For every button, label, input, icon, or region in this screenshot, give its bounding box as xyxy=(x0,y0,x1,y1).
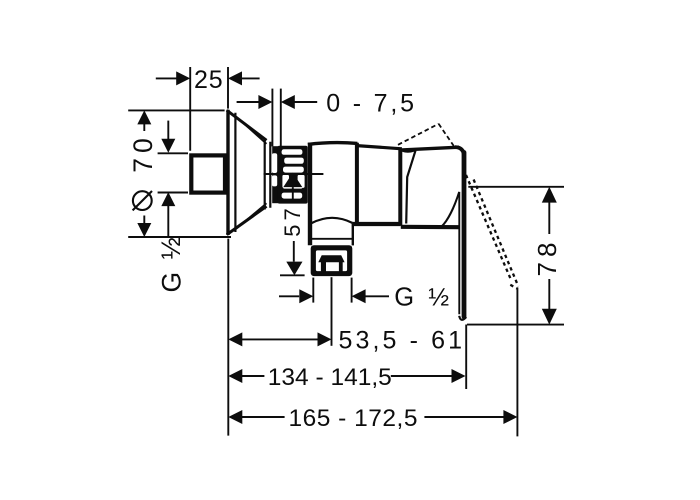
outlet neck xyxy=(311,223,353,245)
wall nipple G1/2 xyxy=(191,155,225,192)
dimension 57 (axis to outlet) xyxy=(283,173,302,188)
svg-text:0 - 7,5: 0 - 7,5 xyxy=(326,90,416,118)
svg-text:G: G xyxy=(394,284,414,312)
escutcheon cone xyxy=(227,110,270,235)
dimension 53,5 - 61 (wall to outlet axis) xyxy=(242,338,318,340)
svg-text:½: ½ xyxy=(428,284,449,312)
handle raised position dashed xyxy=(398,124,454,146)
cap / handle base xyxy=(402,147,459,223)
wall extension line xyxy=(227,239,229,436)
svg-text:53,5 - 61: 53,5 - 61 xyxy=(339,326,466,354)
hose nut G1/2 outlet xyxy=(311,245,353,276)
dimension 78 (handle drop height) xyxy=(467,187,564,325)
svg-text:165 - 172,5: 165 - 172,5 xyxy=(289,405,418,432)
handle face extension xyxy=(465,325,467,390)
union nut knurled xyxy=(272,146,308,204)
handle lever xyxy=(442,147,467,320)
inlet axis centerline tick xyxy=(264,173,324,175)
dimension G 1/2 (outlet thread) xyxy=(279,278,389,303)
dimension 165 - 172,5 (wall to raised handle) xyxy=(242,416,285,418)
svg-text:25: 25 xyxy=(194,66,223,94)
valve body xyxy=(308,143,460,246)
dimension 134 - 141,5 (wall to handle face) xyxy=(242,375,265,377)
svg-text:57: 57 xyxy=(280,204,305,236)
svg-text:½: ½ xyxy=(156,237,186,259)
dimension G 1/2 (wall thread) xyxy=(158,121,188,237)
svg-text:G: G xyxy=(157,272,187,293)
dimension diameter 70 (escutcheon) xyxy=(128,110,231,237)
dimension 25 (nipple length) xyxy=(156,67,260,151)
outlet axis extension xyxy=(331,277,333,346)
svg-text:78: 78 xyxy=(532,238,562,277)
raised tip extension xyxy=(516,288,518,437)
svg-text:134 - 141,5: 134 - 141,5 xyxy=(268,364,392,391)
dimension 0 - 7,5 (escutcheon adjustment) xyxy=(237,89,318,151)
svg-text:70: 70 xyxy=(128,133,158,172)
